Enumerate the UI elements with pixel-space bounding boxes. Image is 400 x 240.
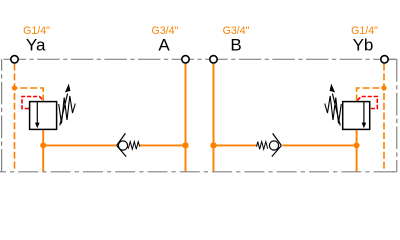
- svg-text:A: A: [158, 36, 170, 55]
- svg-text:Yb: Yb: [353, 36, 374, 55]
- svg-text:B: B: [230, 36, 241, 55]
- svg-text:Ya: Ya: [26, 36, 46, 55]
